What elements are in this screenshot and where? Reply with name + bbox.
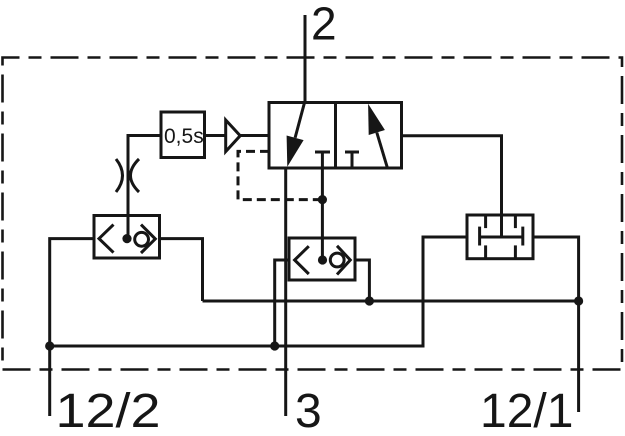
enclosure dashed border (3, 58, 623, 370)
svg-text:3: 3 (295, 385, 322, 436)
valve V1 right-cell flow arrow (368, 104, 387, 168)
valve V1 left-cell flow arrow (287, 103, 305, 167)
svg-text:2: 2 (311, 0, 337, 50)
shuttle valve W2 (middle OR element) (289, 238, 355, 280)
wire signal bus (203, 300, 579, 303)
timer Z1 (0,5s delay box) (161, 112, 205, 158)
throttle restriction (arcs) (116, 159, 139, 192)
junction W2-right / bus (365, 296, 374, 305)
wire amplifier to valve V1 (240, 134, 269, 137)
svg-text:0,5s: 0,5s (164, 125, 204, 148)
two-pressure valve D1 (AND element) (467, 215, 533, 259)
wire valve V1 right to D1 top (402, 136, 502, 237)
wire valve V1 blocked port to shuttle W2 (321, 168, 324, 260)
junction 12/1 / bus (574, 296, 583, 305)
wire W1 right port down (160, 239, 203, 301)
junction 12/2 / cross line (45, 341, 54, 350)
wire timer to amplifier (205, 134, 226, 137)
valve V1 right-cell blocked port (345, 152, 359, 168)
valve V1 body (3/2 directional valve) (269, 103, 402, 169)
wire lower cross line 12/2 to AND valve (50, 237, 467, 346)
wire valve V1 output to port 3 (284, 168, 287, 416)
pilot dashed line (238, 151, 322, 199)
amplifier triangle (pilot booster) (226, 120, 241, 152)
wire W2 left port down (275, 260, 289, 346)
junction W2-left / cross line (270, 341, 279, 350)
svg-text:12/2: 12/2 (56, 385, 161, 436)
svg-text:12/1: 12/1 (480, 385, 573, 436)
junction pilot/shuttle line (318, 195, 327, 204)
wire W1 left port to 12/2 (50, 239, 94, 416)
wire pilot input to timer (128, 136, 161, 239)
wire W2 right port down (355, 260, 369, 301)
shuttle valve W1 (left OR element) (94, 216, 160, 259)
node 2 (port line) (304, 15, 307, 103)
valve V1 left-cell blocked port (315, 152, 330, 168)
wire D1 right port to 12/1 (533, 237, 579, 412)
